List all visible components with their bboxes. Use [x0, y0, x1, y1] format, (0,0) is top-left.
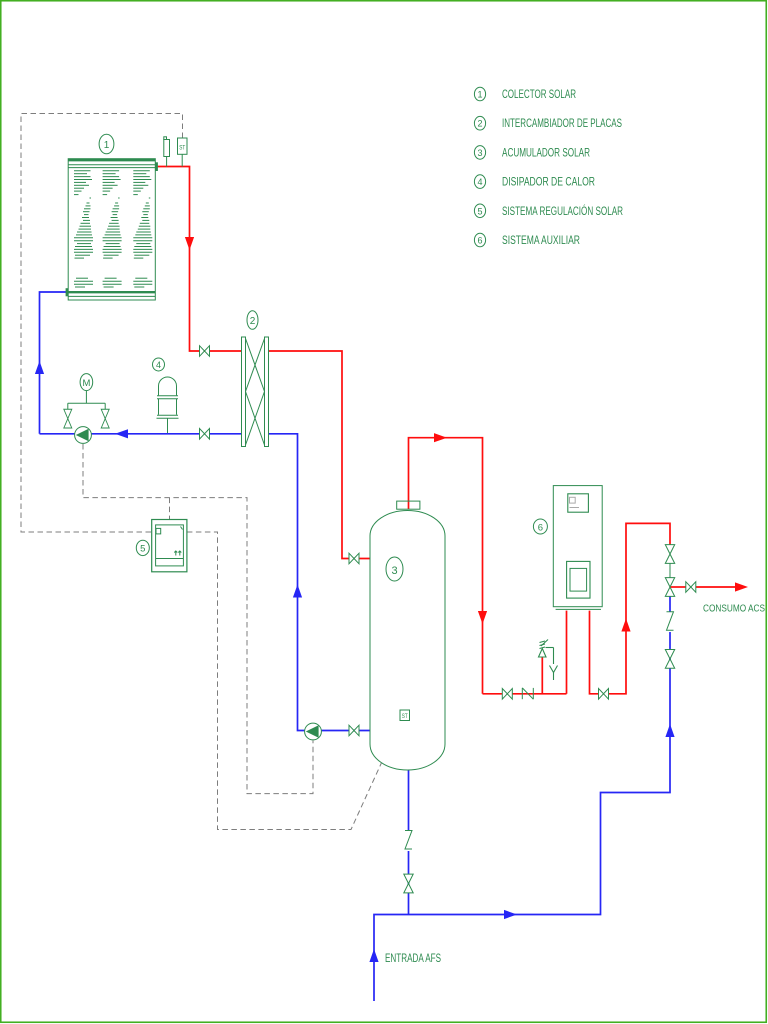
legend circle 3: [474, 146, 485, 160]
svg-text:5: 5: [477, 206, 482, 216]
legend circle 6: [474, 233, 485, 247]
valve solar supply: [200, 346, 210, 357]
wire blue cold feed main: [374, 632, 670, 1001]
valve right riser top: [665, 545, 674, 564]
wire red tank top to dissipator drop: [409, 438, 483, 694]
air vent purger: [164, 137, 170, 167]
label circle 5: [136, 540, 149, 555]
wire red exchanger to tank inlet: [269, 351, 371, 559]
red arrow right consumo ACS: [735, 582, 748, 591]
svg-text:6: 6: [477, 236, 482, 246]
red arrow up boiler return: [621, 619, 630, 632]
red arrow down collector drop: [185, 237, 194, 250]
svg-text:4: 4: [156, 360, 161, 370]
flex Z tank drop: [405, 831, 412, 850]
safety valve SV: [539, 640, 558, 681]
svg-text:ST: ST: [402, 714, 408, 720]
motor M circle: [80, 374, 93, 391]
boiler panel details: [570, 497, 580, 507]
svg-text:COLECTOR SOLAR: COLECTOR SOLAR: [502, 89, 576, 101]
collector C1 frame: [68, 159, 155, 300]
label circle 3: [386, 557, 403, 581]
valve left of motor group: [64, 409, 72, 428]
wire red boiler right pipe: [590, 523, 671, 693]
pump P2 secondary: [305, 723, 322, 740]
svg-text:INTERCAMBIADOR DE PLACAS: INTERCAMBIADOR DE PLACAS: [502, 118, 622, 130]
regulator R5 box: [152, 520, 187, 572]
wire dashed pump1 to bus: [83, 444, 313, 794]
legend circle 4: [474, 175, 485, 189]
dissipator D4 vessel: [157, 377, 179, 433]
legend circle 2: [474, 116, 485, 130]
wire red ACS outlet after valve: [696, 586, 737, 588]
collector hatch column 2: [103, 171, 122, 287]
wire dashed regulator right to tank sensor: [187, 532, 402, 830]
wire dashed bus to regulator top: [169, 498, 171, 520]
label circle 6: [533, 519, 547, 534]
valve ACS outlet: [686, 582, 696, 593]
pump P1 solar: [75, 427, 92, 444]
red arrow right tank-top line: [434, 433, 447, 442]
check valve N boiler feed: [522, 688, 533, 699]
wire green stub valve chain: [669, 564, 671, 579]
svg-text:2: 2: [477, 119, 482, 129]
svg-text:3: 3: [391, 565, 397, 577]
collector inlet fitting: [66, 288, 69, 296]
collector outlet fitting: [155, 162, 158, 171]
blue arrow left on solar return: [115, 429, 128, 438]
exchanger U2 body: [242, 337, 269, 447]
wire red safety valve stub: [541, 657, 543, 694]
label circle 4: [153, 358, 165, 371]
blue arrow up exchanger secondary: [293, 585, 302, 598]
valve right of motor group: [101, 409, 109, 428]
svg-text:4: 4: [477, 177, 482, 187]
wire red ACS outlet: [670, 586, 686, 588]
sensor ST tank: [400, 710, 410, 721]
valve boiler return: [599, 689, 609, 700]
wire dashed top loop horizontal: [21, 114, 183, 533]
wire blue tank drop lower: [408, 851, 410, 915]
red arrow down dissipator drop: [478, 611, 487, 624]
valve tank secondary: [349, 725, 359, 736]
wire blue collector return riser: [40, 292, 69, 434]
valve mixing junction: [665, 578, 674, 597]
label circle 2: [247, 311, 258, 330]
collector hatch column 3: [133, 171, 152, 287]
wire red collector outlet: [155, 167, 242, 352]
svg-text:ENTRADA AFS: ENTRADA AFS: [385, 953, 441, 965]
svg-text:SISTEMA REGULACIÓN SOLAR: SISTEMA REGULACIÓN SOLAR: [502, 205, 623, 218]
label circle 1: [99, 134, 114, 154]
svg-text:5: 5: [140, 544, 145, 555]
valve tank drop: [404, 874, 413, 893]
svg-text:ACUMULADOR SOLAR: ACUMULADOR SOLAR: [502, 147, 590, 159]
motor valve bracket: [68, 391, 105, 409]
legend circle 1: [474, 87, 485, 101]
blue arrow right cold main: [504, 910, 517, 919]
wire blue exchanger secondary down: [269, 434, 371, 731]
valve solar return: [200, 429, 210, 440]
sensor ST collector: [178, 138, 188, 167]
blue arrow up to collector: [35, 361, 44, 374]
svg-text:1: 1: [477, 90, 482, 100]
tank neck: [397, 501, 420, 509]
svg-text:CONSUMO ACS: CONSUMO ACS: [703, 603, 765, 615]
wire blue exchanger to collector line: [40, 433, 242, 435]
svg-text:2: 2: [250, 316, 256, 327]
valve right riser lower: [665, 650, 674, 669]
wire blue riser to mixing valve: [669, 596, 671, 612]
tank T3 body: [370, 511, 445, 770]
valve boiler feed: [502, 689, 512, 700]
boiler B6 body: [553, 486, 602, 610]
wire red bottom boiler feed: [483, 693, 567, 695]
svg-text:M: M: [82, 378, 90, 389]
flex Z right riser: [667, 612, 674, 631]
svg-text:DISIPADOR DE CALOR: DISIPADOR DE CALOR: [502, 177, 595, 189]
svg-text:6: 6: [538, 523, 543, 534]
blue arrow up entrada: [369, 949, 378, 962]
collector hatch columns: [74, 171, 93, 287]
svg-text:ST: ST: [179, 145, 185, 152]
svg-text:1: 1: [104, 140, 110, 151]
legend circle 5: [474, 204, 485, 218]
svg-text:3: 3: [477, 148, 482, 158]
wire red boiler left pipe: [566, 611, 568, 694]
valve tank hot inlet: [349, 553, 359, 564]
blue arrow up right riser: [665, 724, 674, 737]
wire blue tank bottom drop: [408, 770, 410, 830]
svg-text:SISTEMA AUXILIAR: SISTEMA AUXILIAR: [502, 235, 580, 247]
